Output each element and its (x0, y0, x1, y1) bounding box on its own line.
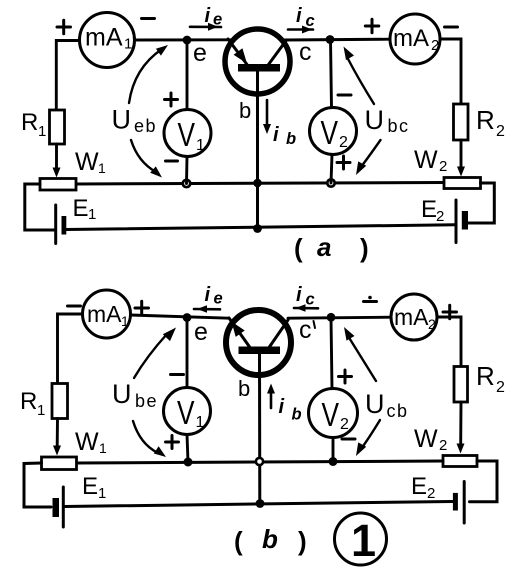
label U_cb (b) (365, 389, 409, 421)
svg-text:b: b (262, 524, 278, 554)
voltmeter V1 (a) (164, 110, 211, 157)
svg-text:R: R (20, 388, 37, 415)
wire with arrow: (a) R1 to W1 (53, 144, 61, 178)
polarity − at mA1 left (b) (68, 305, 81, 308)
svg-text:R: R (476, 361, 495, 391)
current label i_e with arrow (a) (190, 5, 222, 31)
current label i_b with arrow (b) (267, 384, 302, 424)
polarity − at V1 bottom (a) (166, 160, 178, 163)
junction below V1 (b) (184, 458, 193, 467)
node e (a) (183, 36, 192, 45)
arrow: (a) U_bc toward c (344, 47, 375, 105)
svg-text:1: 1 (99, 440, 107, 456)
current label i_c with arrow (a) (288, 5, 315, 34)
svg-text:E: E (73, 195, 89, 222)
svg-text:U: U (112, 379, 132, 409)
svg-text:b: b (238, 376, 250, 401)
polarity − at mA1 right (a) (142, 17, 155, 20)
svg-text:(: ( (294, 233, 303, 263)
label U_be (b) (112, 379, 158, 411)
svg-text:1: 1 (196, 137, 205, 154)
wire with arrow: (b) R1 to W1 (53, 419, 61, 456)
wire: (b) collector to mA2 (288, 317, 392, 318)
caption (a) (294, 232, 369, 263)
polarity + at mA2 right (b) (443, 305, 457, 319)
svg-text:e: e (194, 318, 208, 346)
polarity − at V2 bottom (b) (342, 438, 355, 441)
label R1 (a) (21, 109, 46, 140)
label E2 (a) (421, 196, 444, 225)
svg-text:V: V (322, 396, 340, 433)
svg-text:1: 1 (88, 206, 96, 223)
svg-text:W: W (414, 146, 438, 174)
potentiometer W2 (b) (443, 456, 477, 467)
current label i_e with arrow (b) (194, 284, 223, 313)
wire: (a) e node to V1 (186, 40, 189, 110)
polarity − at mA2 right (a) (445, 26, 458, 29)
svg-text:mA: mA (393, 25, 429, 52)
polarity + at mA2 left (a) (365, 19, 379, 33)
svg-text:2: 2 (439, 437, 447, 454)
svg-text:mA: mA (87, 301, 122, 327)
svg-text:b: b (292, 406, 302, 424)
polarity − at V2 top (a) (338, 94, 351, 97)
voltmeter V1 (b) (164, 388, 211, 435)
polarity + at mA1 right (b) (135, 301, 149, 315)
base wire (a) (256, 71, 259, 229)
svg-text:c: c (299, 38, 312, 66)
current label i_c with arrow (b) (294, 284, 318, 312)
resistor R1 (b) (52, 384, 68, 419)
svg-text:cb: cb (387, 401, 409, 421)
svg-text:b: b (286, 130, 296, 148)
svg-text:1: 1 (121, 313, 129, 329)
wire: (a) V2 to rail 1 (331, 155, 332, 184)
svg-text:i: i (273, 124, 279, 146)
battery E1 (b) (53, 487, 64, 527)
wire: (a) W2 right loop to E2 (468, 183, 494, 223)
polarity + at V2 bottom (a) (337, 156, 350, 169)
svg-text:2: 2 (496, 123, 505, 140)
wire: (a) top-left corner, + lead down to R1 (56, 41, 80, 111)
svg-text:i: i (279, 396, 285, 418)
svg-text:be: be (135, 391, 158, 411)
svg-text:V: V (321, 114, 339, 151)
svg-text:i: i (296, 284, 302, 306)
svg-text:1: 1 (98, 160, 106, 176)
battery E2 (a) (456, 200, 468, 243)
svg-text:e: e (214, 290, 223, 308)
rail 1 (b): common node line (77, 461, 444, 463)
label U_bc (a) (365, 105, 410, 136)
ammeter mA1 (a) (80, 13, 135, 68)
svg-text:W: W (414, 425, 438, 453)
wire: (b) c node to V2 (331, 318, 332, 390)
node c (b) (327, 313, 336, 322)
label R2 (b) (476, 361, 505, 396)
svg-text:c: c (299, 316, 312, 344)
junction base on rail 2 (b) (256, 499, 265, 508)
ammeter mA2 (b) (391, 294, 437, 340)
svg-text:2: 2 (496, 379, 505, 396)
rail 2 (b): battery line (65, 502, 453, 507)
arrow: (a) U_eb toward rail (131, 140, 162, 178)
transistor T (b) (226, 310, 291, 375)
voltmeter V2 (a) (310, 108, 357, 155)
node c (a) (326, 35, 335, 44)
arrow: (b) U_be toward rail (133, 421, 166, 457)
svg-text:2: 2 (439, 158, 447, 175)
polarity + at V1 top (a) (165, 93, 178, 106)
svg-text:U: U (365, 105, 385, 135)
rail 1 (a): common node line (76, 183, 444, 185)
transistor T (a) (225, 29, 290, 94)
polarity + at V1 bottom (b) (166, 436, 179, 449)
label W2 (b) (414, 425, 447, 454)
svg-text:2: 2 (431, 37, 439, 54)
svg-text:W: W (75, 148, 99, 176)
label R2 (a) (476, 105, 505, 140)
wire: (a) W1 left loop to E1 (25, 184, 54, 230)
svg-text:c: c (306, 291, 315, 309)
svg-text:R: R (476, 105, 495, 135)
svg-text:bc: bc (388, 116, 410, 136)
label U_eb (a) (112, 105, 158, 137)
junction base on rail 1 (b) (256, 458, 263, 465)
battery E1 (a) (56, 205, 67, 244)
wire: (a) c node to V2 (331, 40, 332, 109)
node e (b) (183, 313, 192, 322)
wire: (a) V1 to rail 1 (185, 157, 188, 184)
svg-text:c: c (306, 12, 315, 30)
wire: (b) e node to V1 (186, 318, 189, 388)
voltmeter V2 (b) (309, 389, 358, 438)
resistor R1 (a) (50, 110, 65, 144)
label E1 (a) (73, 195, 97, 223)
svg-text:2: 2 (428, 316, 436, 332)
wire: (b) V1 to rail 1 (187, 435, 188, 463)
svg-text:b: b (239, 98, 251, 123)
svg-text:1: 1 (98, 485, 106, 502)
base wire (b) (258, 354, 261, 504)
arrow: (b) U_be toward e (134, 328, 176, 379)
svg-text:2: 2 (427, 485, 435, 502)
svg-text:E: E (421, 196, 437, 223)
arrow: (b) U_cb toward V2 minus (356, 420, 380, 456)
wire: (b) W1 left loop to E1 (24, 463, 51, 507)
arrow: (a) U_eb toward e (129, 45, 168, 103)
wire: (b) mA2 to R2 (437, 317, 461, 367)
rail 2 (a): battery line (66, 225, 456, 230)
svg-text:V: V (177, 394, 195, 431)
junction base on rail 2 (a) (253, 224, 262, 233)
svg-text:i: i (205, 284, 211, 306)
svg-text:U: U (112, 105, 132, 135)
arrow: (b) U_cb toward c (344, 327, 376, 381)
figure number 1 in circle (335, 513, 387, 566)
label W1 (a) (75, 148, 106, 176)
wire: (b) V2 to rail 1 (332, 438, 335, 462)
svg-text:1: 1 (124, 36, 132, 53)
wire: (a) collector to mA2 (285, 38, 390, 42)
wire: (b) top-left corner down to R1 (58, 314, 84, 384)
wire: (a) mA2 to R2 (440, 39, 461, 105)
potentiometer W1 (a) (40, 179, 76, 191)
potentiometer W1 (b) (42, 457, 77, 470)
polarity − at V1 top (b) (171, 373, 184, 376)
label R1 (b) (20, 388, 45, 419)
svg-text:1: 1 (38, 123, 46, 140)
resistor R2 (a) (454, 104, 469, 140)
svg-text:U: U (365, 389, 385, 419)
svg-text:E: E (82, 473, 98, 500)
junction below V1 (a) (183, 180, 190, 187)
ammeter mA2 (a) (390, 14, 440, 64)
svg-text:2: 2 (339, 134, 348, 151)
potentiometer W2 (a) (444, 178, 481, 189)
svg-text:mA: mA (85, 24, 123, 52)
wire with arrow: (a) R2 to W2 (457, 140, 465, 177)
junction base on rail 1 (a) (253, 179, 262, 188)
svg-text:1: 1 (37, 402, 45, 419)
svg-text:mA: mA (394, 304, 429, 330)
current label i_b with arrow (a) (263, 100, 296, 148)
junction below V2 (a) (327, 179, 334, 186)
wire: (b) mA1 to emitter node (131, 315, 230, 318)
svg-text:i: i (296, 5, 302, 27)
battery E2 (b) (453, 482, 464, 524)
svg-text:): ) (298, 526, 307, 556)
wire: (a) mA1 to emitter node (135, 38, 231, 41)
caption (b) (234, 524, 307, 556)
svg-text:R: R (21, 109, 38, 136)
svg-text:): ) (360, 233, 369, 263)
svg-text:V: V (178, 116, 196, 153)
label W2 (a) (414, 146, 447, 175)
svg-text:a: a (317, 232, 331, 262)
label c' (b) (299, 316, 315, 344)
svg-text:2: 2 (340, 416, 349, 433)
wire with arrow: (b) R2 to W2 (457, 402, 465, 454)
arrow: (a) U_bc toward V2 plus (356, 140, 381, 175)
label E2 (b) (411, 473, 435, 502)
svg-text:(: ( (234, 526, 243, 556)
ammeter mA1 (b) (83, 290, 131, 338)
svg-text:eb: eb (134, 116, 157, 136)
svg-text:E: E (411, 473, 427, 500)
svg-text:1: 1 (196, 414, 205, 431)
wire: (b) W2 right loop to E2 (470, 461, 498, 502)
resistor R2 (b) (454, 367, 468, 403)
polarity + at V2 top (b) (339, 370, 352, 383)
polarity − at mA2 left (b) (364, 296, 377, 302)
junction below V2 (b) (329, 457, 338, 466)
svg-text:1: 1 (351, 515, 376, 566)
polarity + at mA1 left (a) (57, 20, 71, 34)
label E1 (b) (82, 473, 106, 502)
svg-text:W: W (75, 428, 99, 456)
label W1 (b) (75, 428, 107, 456)
svg-text:2: 2 (436, 208, 444, 225)
svg-text:e: e (193, 39, 207, 67)
